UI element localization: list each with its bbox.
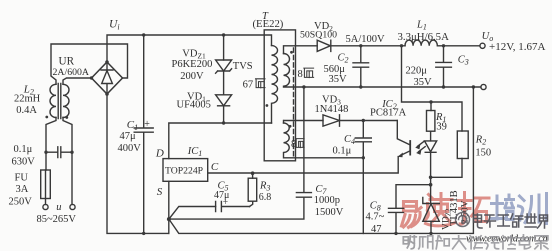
watermark gray bottom text shepin tianxian — [403, 235, 548, 249]
svg-text:PC817A: PC817A — [370, 107, 407, 118]
watermark red char su — [425, 194, 455, 226]
wire to C8 — [396, 185, 431, 209]
node C2 top junction — [359, 44, 362, 47]
svg-text:47μ: 47μ — [120, 131, 137, 142]
watermark blue char xun — [519, 194, 547, 224]
diode VD1 UF4005 — [216, 95, 232, 106]
resistor R1 — [430, 102, 432, 111]
svg-text:5A/100V: 5A/100V — [346, 34, 386, 45]
capacitor C5 — [216, 202, 250, 212]
node bias polarity dot — [289, 125, 292, 128]
svg-text:C: C — [211, 161, 219, 173]
svg-text:6.8: 6.8 — [259, 192, 272, 203]
svg-text:C4: C4 — [344, 134, 355, 146]
rectifier UR bridge — [92, 62, 123, 94]
diode VD3 1N4148 — [323, 115, 340, 126]
svg-text:630V: 630V — [12, 157, 36, 168]
fuse FU — [41, 170, 51, 199]
wire bias return — [284, 157, 363, 159]
svg-text:1500V: 1500V — [315, 207, 344, 218]
wire control pin — [208, 157, 399, 173]
svg-text:35V: 35V — [329, 74, 348, 85]
svg-text:+12V, 1.67A: +12V, 1.67A — [489, 41, 545, 53]
svg-text:8: 8 — [298, 69, 303, 80]
svg-text:R3: R3 — [259, 181, 270, 193]
svg-text:0.1μ: 0.1μ — [333, 145, 352, 156]
node right vertical top — [472, 85, 475, 88]
diode VDZ1 TVS — [223, 35, 225, 60]
svg-text:85~265V: 85~265V — [37, 214, 77, 225]
svg-text:67: 67 — [243, 79, 254, 90]
svg-text:P6KE200: P6KE200 — [172, 59, 213, 70]
svg-text:220μ: 220μ — [406, 66, 428, 77]
wire S to C7 — [169, 197, 304, 219]
svg-text:200V: 200V — [180, 71, 204, 82]
wire bias to VD3 — [284, 120, 323, 122]
wire R1 top feed — [402, 46, 463, 131]
capacitor C4 — [355, 121, 371, 234]
svg-text:4.7~: 4.7~ — [366, 212, 385, 223]
svg-text:0.1μ: 0.1μ — [14, 144, 33, 155]
IC IC1 TOP224P box — [163, 159, 208, 182]
wire AC line2 to bridge — [63, 78, 92, 84]
diode IC2 LED — [430, 131, 432, 141]
svg-text:D: D — [155, 148, 164, 160]
watermark blue char pei — [491, 195, 514, 220]
node output- terminal — [481, 84, 486, 89]
diode VDZ2 TL431 — [423, 198, 440, 204]
node primary polarity dot — [266, 104, 269, 107]
svg-text:3.3μH/6.5A: 3.3μH/6.5A — [398, 31, 450, 43]
svg-text:u: u — [56, 202, 61, 213]
svg-text:Ui: Ui — [109, 19, 120, 32]
watermark gray text dianzi gongcheng shijie — [474, 214, 548, 228]
svg-text:400V: 400V — [118, 143, 142, 154]
node C1 top junction — [142, 33, 145, 36]
svg-text:+: + — [144, 119, 150, 130]
svg-text:S: S — [157, 186, 163, 198]
svg-text:+: + — [223, 198, 228, 208]
svg-text:250V: 250V — [9, 196, 33, 207]
svg-text:TOP224P: TOP224P — [165, 166, 203, 177]
inductor L2 common mode choke core — [58, 84, 61, 119]
wire choke right down — [63, 118, 72, 205]
svg-text:IC1: IC1 — [187, 146, 203, 158]
node TVS top junction — [222, 33, 225, 36]
transistor IC2 phototransistor — [397, 121, 410, 146]
resistor R3 — [250, 201, 253, 206]
transformer primary winding 67 turns — [272, 46, 278, 124]
inductor L2 left winding — [50, 84, 56, 117]
svg-text:TVS: TVS — [233, 61, 253, 72]
watermark red char yi — [402, 202, 422, 228]
transformer core dashed — [293, 48, 295, 157]
wire source pin — [168, 181, 170, 233]
svg-text:R2: R2 — [475, 134, 486, 146]
node clamp junction — [222, 121, 225, 124]
svg-text:(EE22): (EE22) — [253, 18, 284, 30]
wire U_i rail — [107, 35, 272, 62]
capacitor C3 — [436, 46, 452, 87]
svg-text:8: 8 — [291, 139, 296, 150]
node LED cathode junction — [429, 176, 433, 180]
inductor L1 — [405, 40, 480, 46]
svg-text:22mH: 22mH — [14, 94, 41, 105]
transformer secondary 8turns zha glyph — [304, 68, 314, 78]
svg-text:0.4A: 0.4A — [16, 105, 37, 116]
resistor R2 — [457, 131, 468, 159]
transformer bias winding 8 turns — [283, 121, 285, 124]
svg-text:47: 47 — [371, 224, 382, 235]
svg-text:39: 39 — [436, 121, 447, 132]
diode VD2 50SQ100 — [317, 40, 330, 51]
node C3 top junction — [442, 44, 445, 47]
wire LED light arrows — [418, 141, 426, 152]
svg-text:1N4148: 1N4148 — [315, 104, 349, 115]
capacitor C2 — [353, 46, 369, 87]
node C7 top junction — [302, 85, 305, 88]
svg-text:C3: C3 — [458, 55, 469, 67]
svg-text:1000p: 1000p — [314, 195, 340, 206]
transformer secondary winding 8 turns — [284, 46, 318, 54]
transformer bias 8turns zha glyph — [296, 139, 305, 148]
wire bridge negative rail — [107, 94, 169, 234]
svg-text:UR: UR — [59, 55, 75, 67]
node C4 bottom junction — [362, 156, 365, 159]
node C8 branch junction — [429, 183, 433, 187]
svg-text:3A: 3A — [16, 184, 29, 195]
watermark red char tuo — [459, 193, 490, 225]
node input terminals — [43, 204, 48, 209]
transformer T box — [264, 30, 295, 161]
node C4 top junction — [362, 119, 365, 122]
svg-text:35V: 35V — [414, 77, 433, 88]
capacitor C8 — [389, 208, 404, 233]
svg-text:UF4005: UF4005 — [177, 100, 211, 111]
svg-text:FU: FU — [15, 173, 29, 184]
svg-text:150: 150 — [475, 148, 491, 159]
wire S to secondary common — [169, 87, 474, 233]
node secondary polarity dot — [290, 51, 293, 54]
inductor L2 right winding — [63, 84, 69, 117]
wire choke left down — [46, 118, 56, 171]
capacitor C7 — [296, 87, 311, 197]
svg-text:C2: C2 — [338, 52, 349, 64]
node choke polarity dots — [45, 116, 48, 119]
svg-text:50SQ100: 50SQ100 — [300, 29, 337, 40]
wire S to C5 branch — [169, 207, 216, 220]
wire AC line1 to bridge — [51, 44, 128, 84]
capacitor C6 — [46, 147, 72, 158]
watermark logo circle — [456, 213, 470, 227]
transformer 67turns zha glyph — [256, 79, 266, 88]
svg-text:TL431B: TL431B — [449, 190, 460, 226]
node C1 bottom junction — [142, 232, 145, 235]
wire TVS to VD1 — [223, 71, 225, 95]
wire drain — [169, 123, 272, 159]
node output+ terminal — [480, 43, 485, 48]
node S junction — [167, 217, 171, 221]
capacitor C1 — [134, 35, 153, 233]
svg-text:2A/600A: 2A/600A — [53, 67, 89, 78]
